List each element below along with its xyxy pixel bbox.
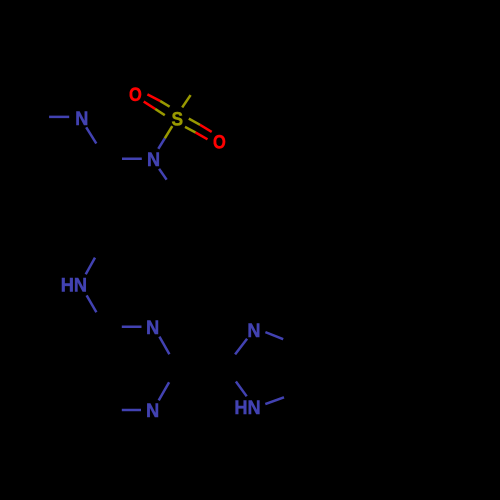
bond S=O2 double, line A [189, 119, 200, 125]
bond N2-CH3 (left, nitrogen half) [49, 116, 69, 119]
bond N2-C (down-right, nitrogen half) [86, 127, 96, 143]
svg-text:N: N [146, 318, 159, 339]
bond N3-C2 (down-right, nitrogen half) [159, 337, 169, 355]
svg-text:S: S [172, 109, 184, 130]
bond N5-C4 (right, nitrogen half) [265, 332, 283, 339]
svg-text:N: N [247, 321, 260, 342]
bond S-N1 [165, 126, 173, 138]
bond S=O1 double, line A [147, 94, 160, 101]
bond N6-C2i (up-left, nitrogen half) [236, 382, 247, 397]
bond S-CH3 (sulfur half) [182, 95, 190, 107]
bond N3-C (left, nitrogen half) [122, 325, 142, 328]
bond N4-C (left, nitrogen half) [122, 409, 141, 412]
bond HN-C (up, nitrogen half) [86, 258, 95, 275]
svg-text:N: N [75, 109, 88, 130]
svg-text:HN: HN [61, 275, 87, 296]
bond N6-C5 (right, nitrogen half) [265, 397, 284, 404]
bond N4-C2 (up-right, nitrogen half) [159, 382, 169, 400]
svg-text:N: N [146, 401, 159, 422]
bond S=O1 double, line B [144, 102, 156, 109]
bond S=O2 double, line B [185, 127, 196, 133]
svg-text:HN: HN [234, 398, 260, 419]
svg-text:N: N [147, 150, 160, 171]
svg-text:O: O [213, 132, 226, 153]
bond N1-CH3 (down-right, nitrogen half) [159, 169, 167, 180]
bond HN-C ring (down-right, nitrogen half) [87, 295, 97, 312]
svg-text:O: O [129, 85, 142, 106]
bond N1-C (left, nitrogen half) [122, 158, 142, 161]
bond N5-C2i (down-left, nitrogen half) [235, 339, 247, 355]
